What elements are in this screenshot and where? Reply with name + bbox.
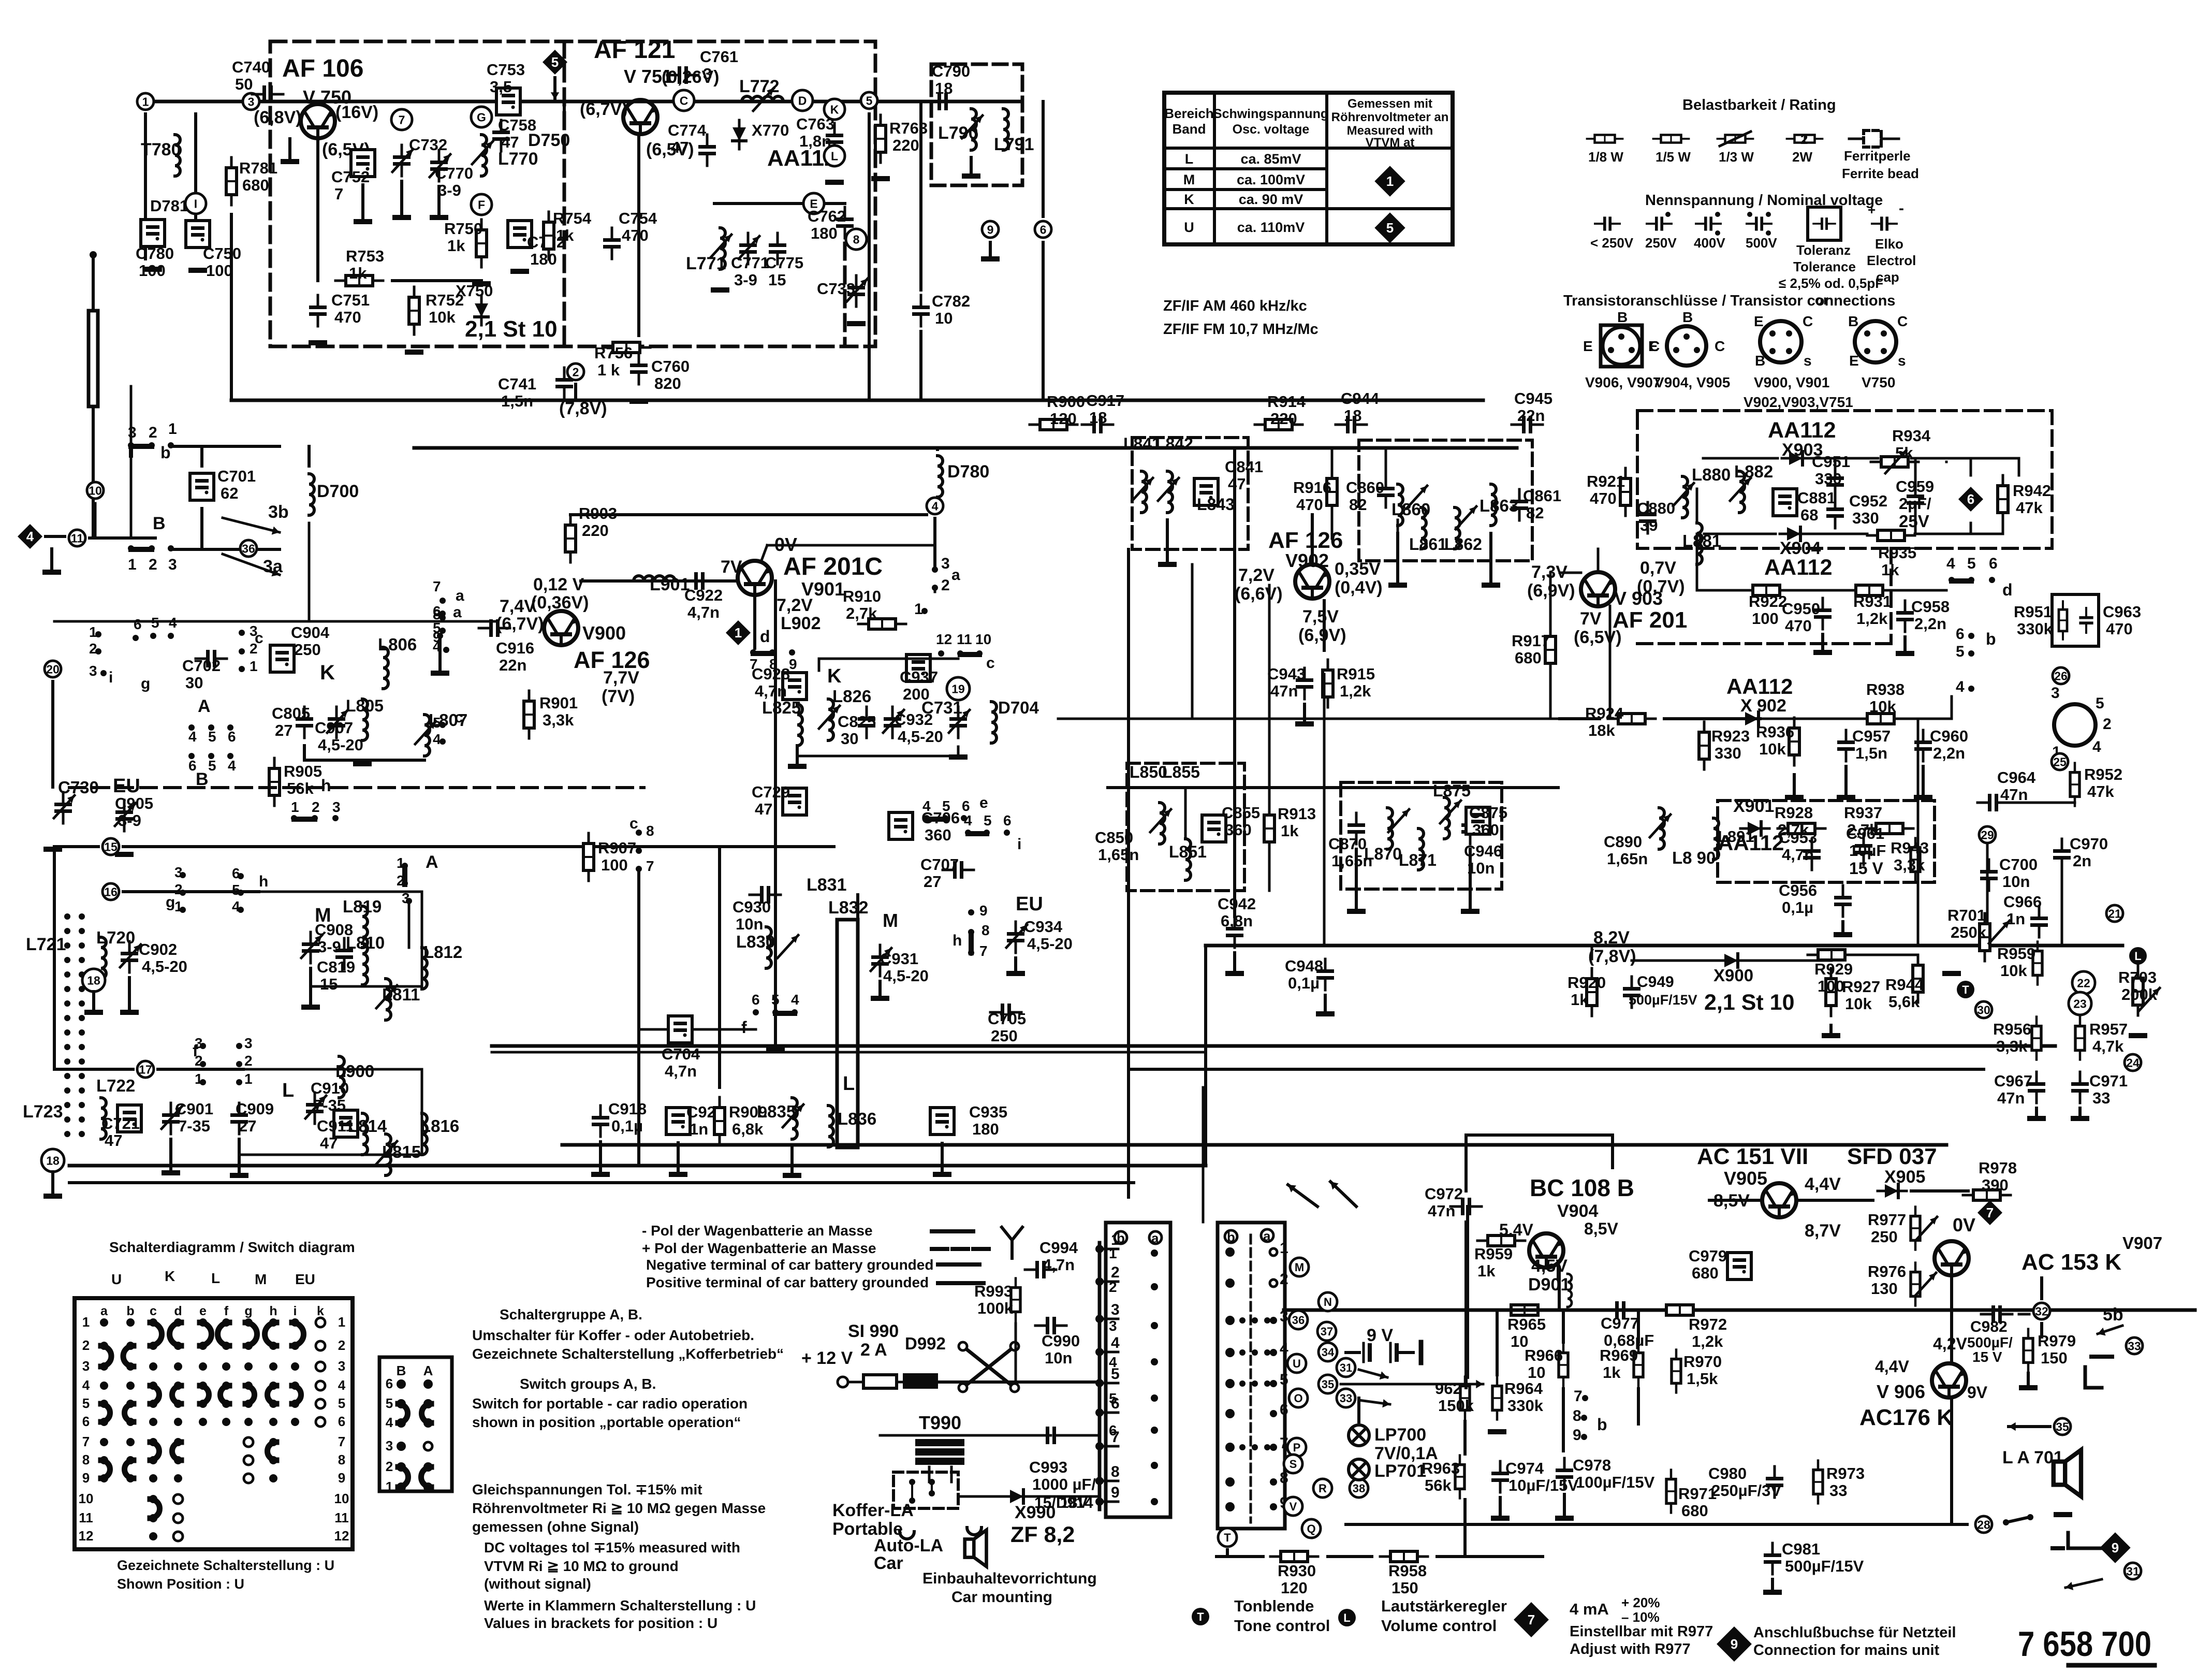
svg-text:(6,9V): (6,9V) [1298, 626, 1346, 645]
svg-text:6: 6 [1040, 223, 1047, 236]
svg-text:R972: R972 [1689, 1315, 1727, 1333]
svg-text:C841: C841 [1225, 458, 1263, 476]
resistor R913 [1264, 805, 1275, 852]
wire bus 2065 [1130, 1068, 1984, 1071]
Koffer-LA box contacts [909, 1479, 915, 1485]
svg-text:b: b [1117, 1230, 1125, 1246]
speaker LA701 [2054, 1450, 2081, 1496]
svg-text:30: 30 [1977, 1003, 1990, 1016]
dashed segment near C733 [843, 243, 847, 346]
svg-text:R900: R900 [1047, 392, 1085, 411]
wire to AF201C [581, 579, 735, 583]
svg-text:R753: R753 [346, 247, 384, 265]
pinout V904 V905 [1667, 326, 1706, 366]
connector box left [1106, 1223, 1170, 1517]
svg-text:V750: V750 [1862, 374, 1895, 390]
diamond 9 marker small [2100, 1532, 2130, 1563]
svg-text:C952: C952 [1849, 492, 1887, 510]
svg-text:C931: C931 [880, 950, 918, 968]
contact c2 [440, 722, 446, 728]
svg-text:C750: C750 [203, 244, 241, 263]
svg-text:3: 3 [168, 556, 177, 573]
svg-text:1: 1 [338, 1314, 345, 1330]
capacitor C732 variable [393, 145, 411, 176]
svg-text:L790: L790 [938, 123, 978, 143]
svg-text:3: 3 [332, 799, 341, 815]
svg-text:s: s [1898, 353, 1906, 369]
capacitor C977 [1605, 1301, 1636, 1319]
wire r965 row [1558, 1310, 1559, 1311]
wire bus 2211 [562, 1143, 1946, 1147]
contacts c group [239, 630, 245, 636]
capacitor C760 [630, 353, 648, 384]
ground lamp [1357, 1398, 1360, 1422]
transistor V907 AC153K [1935, 1241, 1969, 1275]
svg-text:X905: X905 [1884, 1167, 1925, 1187]
svg-text:7,2V: 7,2V [1238, 565, 1275, 585]
resistor R972 [1656, 1305, 1704, 1315]
svg-text:500V: 500V [1746, 235, 1777, 251]
svg-text:1/8 W: 1/8 W [1588, 149, 1623, 165]
svg-text:R966: R966 [1525, 1346, 1563, 1364]
wire E row [714, 202, 801, 205]
svg-text:D780: D780 [947, 462, 989, 482]
ground a [431, 671, 449, 676]
svg-text:a: a [100, 1304, 108, 1318]
svg-text:6: 6 [228, 729, 236, 745]
svg-text:68: 68 [1800, 506, 1818, 524]
svg-text:470: 470 [1590, 489, 1617, 507]
svg-text:Switch groups A, B.: Switch groups A, B. [520, 1376, 656, 1392]
pinout V750 [1855, 321, 1896, 362]
svg-text:L: L [1343, 1611, 1350, 1624]
svg-text:150: 150 [2041, 1349, 2068, 1367]
svg-text:2: 2 [149, 556, 157, 573]
svg-text:7: 7 [1574, 1388, 1583, 1405]
wire C993 to connector [1067, 1434, 1100, 1437]
svg-text:R701: R701 [1947, 906, 1986, 924]
inductor L880 variable [1682, 476, 1688, 518]
svg-text:d: d [2002, 580, 2013, 599]
svg-text:R910: R910 [843, 587, 881, 605]
svg-text:C752: C752 [331, 168, 370, 186]
capacitor C731 variable [949, 707, 967, 738]
node 28 [1975, 1516, 1992, 1533]
svg-text:7V: 7V [1580, 609, 1602, 629]
svg-text:3-9: 3-9 [734, 271, 757, 289]
svg-text:50: 50 [235, 75, 253, 93]
wire R924 row [1560, 717, 1600, 720]
svg-text:10k: 10k [1845, 995, 1872, 1013]
resistor R910 [858, 619, 906, 629]
svg-text:3,3k: 3,3k [543, 711, 574, 729]
svg-text:L: L [2134, 950, 2141, 963]
svg-text:10k: 10k [1869, 697, 1896, 716]
antenna glyph legend [1002, 1227, 1022, 1240]
svg-text:C958: C958 [1911, 598, 1950, 616]
svg-text:C937: C937 [900, 668, 938, 686]
transformer T780 [175, 135, 180, 176]
svg-text:V902: V902 [1285, 550, 1329, 571]
inductor L882 variable [1739, 471, 1745, 513]
wire M-section box [311, 892, 422, 986]
svg-text:(0,36V): (0,36V) [531, 593, 589, 613]
node D [792, 90, 813, 111]
svg-text:SFD 037: SFD 037 [1847, 1144, 1937, 1169]
svg-text:R931: R931 [1853, 592, 1892, 610]
svg-text:4,4V: 4,4V [1875, 1357, 1909, 1376]
svg-text:100: 100 [1752, 609, 1779, 628]
svg-text:ca. 85mV: ca. 85mV [1240, 151, 1301, 167]
switch contacts B 1-2-3 [128, 545, 134, 551]
svg-text:R951: R951 [2014, 603, 2052, 621]
svg-text:962: 962 [1435, 1379, 1462, 1398]
wire r966 col [1562, 1310, 1565, 1342]
svg-text:AF 201C: AF 201C [783, 553, 883, 580]
resistor R909 [714, 1097, 725, 1145]
svg-text:T780: T780 [141, 140, 181, 159]
svg-text:C700: C700 [1999, 855, 2038, 874]
capacitor C964 [1977, 794, 2009, 811]
wire K tank loop [819, 659, 958, 671]
svg-text:2: 2 [312, 799, 320, 815]
capacitor C752 [351, 150, 375, 177]
wire main top bus [145, 100, 1022, 104]
svg-text:L770: L770 [498, 149, 538, 169]
svg-text:100µF/15V: 100µF/15V [1576, 1473, 1655, 1491]
contacts i/g group [95, 631, 101, 637]
svg-text:AF 121: AF 121 [594, 36, 675, 64]
svg-text:7,4V: 7,4V [500, 597, 536, 616]
svg-text:62: 62 [221, 484, 238, 502]
svg-text:500µF/15V: 500µF/15V [1629, 992, 1697, 1008]
svg-text:12: 12 [936, 631, 952, 647]
wire L-section box [239, 1069, 422, 1155]
wire C752 down [361, 185, 364, 217]
svg-text:AA112: AA112 [1726, 674, 1793, 699]
svg-text:C731: C731 [921, 698, 962, 717]
wire T bottom [1226, 1550, 1229, 1557]
svg-text:LP700: LP700 [1374, 1425, 1426, 1445]
svg-text:1: 1 [1386, 173, 1394, 189]
wire L860 box bottom [1397, 520, 1399, 549]
svg-text:L: L [831, 149, 838, 163]
svg-text:20: 20 [46, 662, 60, 676]
svg-text:400V: 400V [1694, 235, 1725, 251]
svg-text:I: I [194, 197, 197, 210]
svg-text:470: 470 [1296, 496, 1323, 514]
svg-text:D992: D992 [905, 1334, 946, 1353]
svg-text:+: + [1868, 202, 1876, 217]
capacitor C729 [783, 788, 807, 815]
svg-text:7: 7 [399, 113, 405, 126]
transistor V904 BC108B [1529, 1233, 1563, 1268]
svg-text:ZF/IF AM 460 kHz/kc: ZF/IF AM 460 kHz/kc [1163, 298, 1307, 314]
svg-text:C982: C982 [1970, 1318, 2008, 1335]
capacitor C932 variable [884, 707, 901, 738]
capacitor C948 [1316, 959, 1334, 990]
capacitor C741 [555, 368, 573, 399]
svg-text:47n: 47n [1270, 682, 1298, 700]
inductor L720 [101, 937, 106, 979]
wire C964 row [2009, 802, 2075, 804]
svg-text:100k: 100k [977, 1299, 1014, 1317]
svg-text:VTVM at: VTVM at [1366, 136, 1415, 150]
resistor R962 [1460, 1377, 1470, 1420]
capacitor C949 [1623, 977, 1640, 1008]
svg-text:D704: D704 [998, 698, 1039, 717]
svg-text:L836: L836 [838, 1109, 876, 1128]
capacitor C993 [1035, 1427, 1066, 1444]
svg-text:L772: L772 [739, 77, 780, 96]
wire detector row X903 [1703, 457, 1778, 460]
crossing switch [963, 1346, 1015, 1388]
inductor L851 [1185, 839, 1191, 880]
svg-text:23: 23 [2073, 997, 2087, 1010]
svg-text:C740: C740 [232, 58, 270, 76]
svg-text:4: 4 [82, 1377, 90, 1393]
svg-text:180: 180 [972, 1120, 999, 1138]
svg-text:0V: 0V [1953, 1214, 1975, 1235]
svg-text:V905: V905 [1724, 1168, 1767, 1189]
svg-text:C825: C825 [838, 713, 876, 731]
svg-text:Electrol: Electrol [1867, 253, 1916, 268]
wire node29 column [1986, 843, 1989, 927]
svg-text:E: E [1754, 313, 1764, 329]
svg-text:C860: C860 [1346, 478, 1384, 497]
svg-text:34: 34 [1322, 1346, 1335, 1359]
svg-text:C953: C953 [1779, 828, 1817, 847]
transistor V902 AF126 [1295, 564, 1329, 599]
svg-text:C721: C721 [101, 1114, 140, 1132]
svg-text:100: 100 [601, 856, 628, 874]
svg-text:R928: R928 [1775, 804, 1813, 822]
svg-text:4: 4 [1111, 1334, 1120, 1351]
resistor R965 [1501, 1305, 1548, 1315]
svg-text:4,5-20: 4,5-20 [142, 957, 187, 976]
svg-text:10: 10 [334, 1491, 349, 1506]
svg-text:Tonblende: Tonblende [1234, 1597, 1314, 1615]
resistor R934 pot [1871, 457, 1918, 467]
svg-text:470: 470 [1785, 617, 1812, 635]
svg-text:C890: C890 [1604, 833, 1642, 851]
svg-text:V907: V907 [2122, 1233, 2162, 1253]
svg-text:1: 1 [735, 625, 742, 641]
wire long bus y865 [414, 446, 1517, 450]
svg-text:330k: 330k [1507, 1397, 1544, 1415]
svg-text:B: B [1617, 309, 1628, 325]
svg-text:C: C [1715, 338, 1725, 354]
svg-text:V 906: V 906 [1877, 1381, 1925, 1402]
svg-text:8,2V: 8,2V [1593, 928, 1630, 948]
wire vertical x2324 [1202, 1087, 1205, 1222]
resistor R901 [524, 691, 534, 738]
svg-text:4: 4 [433, 731, 441, 747]
svg-text:R957: R957 [2089, 1020, 2128, 1038]
svg-text:7: 7 [338, 1434, 345, 1449]
lamp LP700 [1349, 1425, 1369, 1446]
speaker small legend [965, 1530, 987, 1566]
svg-text:V906, V907: V906, V907 [1585, 374, 1661, 390]
svg-text:d: d [174, 1304, 182, 1318]
inductor L807 variable [424, 715, 430, 756]
svg-text:4 mA: 4 mA [1570, 1600, 1609, 1618]
wire D700 vert [307, 446, 311, 466]
svg-text:Schalterdiagramm / Switch diag: Schalterdiagramm / Switch diagram [109, 1239, 355, 1255]
capacitor C931 variable [871, 945, 889, 976]
svg-text:C790: C790 [932, 62, 970, 80]
svg-text:R993: R993 [974, 1282, 1013, 1300]
svg-text:Toleranz: Toleranz [1796, 242, 1851, 258]
wire audio bc108 loop [1464, 1222, 1468, 1388]
capacitor C870 [1347, 813, 1365, 844]
svg-text:2: 2 [89, 641, 97, 657]
svg-text:18: 18 [46, 1154, 60, 1167]
svg-text:i: i [294, 1304, 297, 1318]
svg-text:g: g [166, 894, 175, 911]
wire X990 row [958, 1495, 1002, 1498]
svg-text:R973: R973 [1826, 1464, 1865, 1482]
svg-text:B: B [153, 514, 166, 533]
svg-text:100: 100 [1818, 977, 1844, 995]
contact e group [924, 815, 930, 821]
resistor R956 [2032, 1017, 2041, 1060]
wire AF201C emitter down [753, 598, 756, 648]
svg-text:250V: 250V [1645, 235, 1677, 251]
node 3 [243, 93, 259, 110]
capacitor C946 [1461, 813, 1479, 844]
resistor R969 [1634, 1344, 1643, 1387]
svg-text:C732: C732 [409, 136, 447, 154]
svg-text:1/3 W: 1/3 W [1719, 149, 1754, 165]
wire L832 top stub [856, 895, 859, 920]
svg-text:39: 39 [1640, 516, 1658, 534]
svg-text:10: 10 [1528, 1363, 1545, 1382]
svg-text:C881: C881 [1797, 489, 1836, 507]
wire R938 row gaps [1760, 718, 1857, 720]
svg-text:R952: R952 [2084, 765, 2122, 783]
svg-text:5: 5 [1280, 1371, 1288, 1388]
transistor V751 AF121 [623, 100, 657, 134]
resistor R781 [226, 157, 237, 205]
svg-text:47: 47 [320, 1134, 338, 1152]
wire right vert [1042, 101, 1045, 216]
sub box BA [379, 1357, 452, 1491]
svg-text:R901: R901 [539, 694, 578, 712]
svg-text:ca. 110mV: ca. 110mV [1237, 220, 1305, 235]
svg-text:R756: R756 [594, 344, 633, 362]
svg-text:4: 4 [2092, 738, 2101, 755]
svg-text:Switch for portable - car r: Switch for portable - car radio operatio… [472, 1395, 748, 1412]
svg-text:680: 680 [1681, 1502, 1708, 1520]
wire nodeL to R703 [2137, 965, 2140, 977]
dashed wafer line [1250, 1235, 1252, 1522]
svg-text:L819: L819 [343, 897, 382, 916]
svg-text:c: c [455, 709, 463, 726]
wire bus 1826 [1206, 944, 2122, 948]
svg-text:36: 36 [242, 542, 255, 555]
svg-text:C: C [1897, 313, 1908, 329]
svg-text:C934: C934 [1024, 918, 1063, 936]
svg-text:C763: C763 [796, 115, 834, 133]
svg-text:C741: C741 [498, 375, 536, 393]
contacts g2 [180, 872, 186, 878]
svg-text:200k: 200k [2121, 985, 2158, 1004]
filled L marker [2129, 947, 2147, 965]
svg-text:9: 9 [1111, 1484, 1120, 1501]
wire C951 col [1834, 458, 1837, 466]
svg-text:2µF/: 2µF/ [1899, 495, 1931, 513]
svg-text:25: 25 [2053, 755, 2067, 768]
svg-text:L870: L870 [1364, 845, 1402, 863]
svg-text:250k: 250k [1951, 923, 1987, 941]
svg-text:B: B [1755, 353, 1765, 369]
svg-text:1: 1 [174, 898, 183, 914]
capacitor C953 [1803, 839, 1821, 870]
svg-text:ca. 90 mV: ca. 90 mV [1239, 192, 1303, 207]
svg-text:1: 1 [914, 601, 923, 618]
svg-text:5: 5 [386, 1395, 393, 1411]
svg-text:C966: C966 [2003, 893, 2042, 911]
wire detector row X904 [1704, 533, 1776, 535]
svg-text:2: 2 [573, 365, 579, 379]
resistor R952 [2070, 763, 2079, 806]
svg-text:C990: C990 [1042, 1332, 1080, 1350]
wire audio feed [1466, 1206, 1469, 1377]
svg-text:Werte in Klammern Schalters: Werte in Klammern Schalterstellung : U [484, 1597, 756, 1613]
svg-text:Car: Car [874, 1553, 903, 1573]
wire contact vertical [94, 503, 97, 536]
capacitor C706 [889, 812, 913, 839]
node 18b [41, 1149, 64, 1172]
svg-text:cap: cap [1876, 269, 1899, 285]
svg-text:33: 33 [2128, 1339, 2141, 1353]
filled T marker [1957, 981, 1974, 998]
svg-text:L816: L816 [420, 1116, 459, 1136]
svg-text:C979: C979 [1689, 1247, 1727, 1265]
svg-text:330k: 330k [2017, 620, 2053, 638]
svg-text:L723: L723 [23, 1102, 63, 1122]
contacts b 6 5 4 [1968, 633, 1974, 639]
svg-text:U: U [111, 1271, 122, 1287]
svg-text:C707: C707 [920, 855, 959, 874]
svg-text:5: 5 [1109, 1390, 1117, 1406]
svg-text:C993: C993 [1029, 1458, 1067, 1476]
svg-text:– 10%: – 10% [1621, 1609, 1660, 1625]
svg-text:9: 9 [979, 903, 988, 919]
svg-text:Nennspannung / Nominal voltage: Nennspannung / Nominal voltage [1645, 192, 1883, 209]
svg-text:C970: C970 [2070, 835, 2108, 853]
svg-text:c: c [986, 655, 995, 672]
svg-text:47n: 47n [1428, 1202, 1455, 1220]
svg-text:shown in position „portable: shown in position „portable operation“ [472, 1414, 741, 1430]
svg-text:K: K [827, 665, 842, 687]
dashed box L790 L791 [931, 64, 1022, 185]
wire node5 down [868, 114, 871, 400]
svg-text:1: 1 [142, 95, 149, 108]
svg-text:L814: L814 [348, 1116, 387, 1136]
svg-text:Transistoranschlüsse / Transis: Transistoranschlüsse / Transistor connec… [1563, 293, 1895, 309]
svg-text:4: 4 [1946, 555, 1955, 572]
dashed box X901 [1718, 801, 1935, 882]
svg-text:18: 18 [87, 973, 100, 987]
svg-text:47: 47 [671, 138, 688, 156]
svg-text:- Pol der Wagenbatterie an: - Pol der Wagenbatterie an Masse [642, 1223, 873, 1239]
wire mid horizontal 1521 [1108, 786, 1558, 789]
resistor R978 [1963, 1190, 2011, 1200]
svg-text:5: 5 [1956, 643, 1965, 660]
svg-text:ca. 100mV: ca. 100mV [1237, 172, 1305, 187]
